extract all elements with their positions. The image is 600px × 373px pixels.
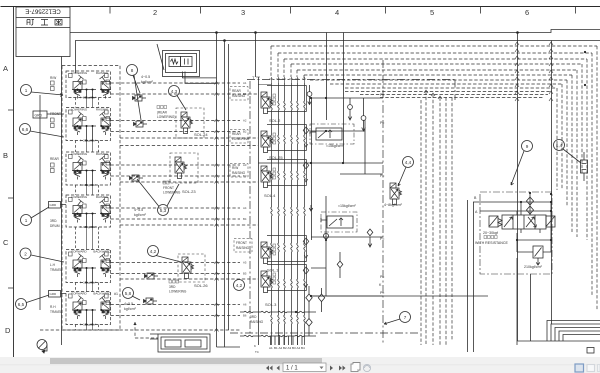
svg-text:8: 8 xyxy=(131,68,134,73)
svg-text:FORWARD: FORWARD xyxy=(71,250,87,254)
svg-text:1: 1 xyxy=(25,88,28,93)
svg-text:kgf/cm²: kgf/cm² xyxy=(124,307,137,311)
svg-text:RAISING: RAISING xyxy=(232,171,246,175)
svg-text:A2: A2 xyxy=(243,119,247,123)
svg-text:R/W: R/W xyxy=(50,76,56,80)
svg-text:P≈: P≈ xyxy=(380,93,384,97)
svg-text:SOL.2: SOL.2 xyxy=(269,118,281,123)
svg-text:BACKWARD: BACKWARD xyxy=(93,292,111,296)
svg-text:20~30kgf: 20~30kgf xyxy=(483,231,498,235)
svg-text:4~8kgf/cm²: 4~8kgf/cm² xyxy=(384,203,403,207)
svg-text:RAISING: RAISING xyxy=(250,320,264,324)
svg-text:BACKWARD: BACKWARD xyxy=(93,250,111,254)
svg-text:4: 4 xyxy=(335,8,339,17)
svg-text:K: K xyxy=(379,283,382,287)
svg-text:RAISING: RAISING xyxy=(96,195,109,199)
svg-text:SOL.25: SOL.25 xyxy=(269,155,283,160)
svg-text:LOWERING: LOWERING xyxy=(71,152,88,156)
svg-text:R/W: R/W xyxy=(232,166,238,170)
svg-text:REAR: REAR xyxy=(232,89,242,93)
svg-text:4,3: 4,3 xyxy=(171,89,178,94)
svg-text:TRAVEL: TRAVEL xyxy=(50,310,62,314)
svg-text:kgf/cm²: kgf/cm² xyxy=(141,80,154,84)
svg-text:LOWERING: LOWERING xyxy=(169,290,187,294)
svg-text:6: 6 xyxy=(525,8,529,17)
svg-text:GRD: GRD xyxy=(50,292,58,296)
svg-text:C: C xyxy=(3,238,9,247)
svg-text:4~25kgf/cm²: 4~25kgf/cm² xyxy=(80,95,97,99)
svg-text:B2: B2 xyxy=(283,346,287,350)
svg-text:5: 5 xyxy=(430,8,434,17)
svg-text:CE122567-E: CE122567-E xyxy=(25,7,60,14)
svg-text:kgf/cm²: kgf/cm² xyxy=(134,213,147,217)
svg-text:A1: A1 xyxy=(269,346,273,350)
svg-text:#1: #1 xyxy=(114,292,118,296)
svg-text:A2: A2 xyxy=(279,346,283,350)
svg-text:4~25kgf/cm²: 4~25kgf/cm² xyxy=(80,138,97,142)
svg-text:4~5.5: 4~5.5 xyxy=(124,302,133,306)
svg-text:A4: A4 xyxy=(297,346,301,350)
svg-text:A6: A6 xyxy=(243,303,247,307)
svg-text:4~15kgf/cm²: 4~15kgf/cm² xyxy=(80,322,97,326)
svg-text:B3: B3 xyxy=(292,346,296,350)
svg-text:3RD: 3RD xyxy=(250,315,257,319)
svg-text:LOWERING: LOWERING xyxy=(163,191,181,195)
svg-text:R.H: R.H xyxy=(50,305,56,309)
svg-text:RAISING: RAISING xyxy=(96,71,109,75)
svg-text:GRD: GRD xyxy=(35,114,43,118)
svg-text:9: 9 xyxy=(526,144,529,149)
svg-text:2: 2 xyxy=(153,8,157,17)
svg-text:B: B xyxy=(474,196,477,200)
svg-text:4~15kgf/cm²: 4~15kgf/cm² xyxy=(80,225,97,229)
svg-text:LOWERING: LOWERING xyxy=(71,195,88,199)
svg-text:4,2: 4,2 xyxy=(236,283,243,288)
svg-text:FRONT: FRONT xyxy=(236,241,247,245)
svg-text:B6: B6 xyxy=(243,314,247,318)
svg-text:B4: B4 xyxy=(243,217,247,221)
svg-text:LOWERING: LOWERING xyxy=(71,71,88,75)
svg-text:SOL.23: SOL.23 xyxy=(182,189,196,194)
svg-text:WITH RESISTANCE: WITH RESISTANCE xyxy=(475,241,508,245)
svg-text:B1: B1 xyxy=(274,346,278,350)
svg-text:4~5.5: 4~5.5 xyxy=(134,208,143,212)
svg-text:B2: B2 xyxy=(243,130,247,134)
svg-text:RAISING: RAISING xyxy=(236,246,250,250)
svg-text:4~15kgf/cm²: 4~15kgf/cm² xyxy=(80,280,97,284)
svg-text:A3: A3 xyxy=(288,346,292,350)
svg-text:LOWERING: LOWERING xyxy=(71,108,88,112)
svg-text:K: K xyxy=(254,344,256,348)
svg-text:GRD: GRD xyxy=(50,203,58,207)
svg-text:A: A xyxy=(3,64,8,73)
svg-text:P≈: P≈ xyxy=(380,291,384,295)
svg-text:SOL.24: SOL.24 xyxy=(194,132,208,137)
svg-text:3: 3 xyxy=(241,8,245,17)
svg-text:SOL.3: SOL.3 xyxy=(265,302,277,307)
svg-text:A5: A5 xyxy=(243,261,247,265)
svg-text:1 / 1: 1 / 1 xyxy=(286,366,298,372)
svg-text:A4: A4 xyxy=(243,206,247,210)
svg-text:DRUM: DRUM xyxy=(50,224,60,228)
svg-text:4~15kgf/cm²: 4~15kgf/cm² xyxy=(80,183,97,187)
svg-text:B: B xyxy=(3,151,8,160)
svg-text:B5: B5 xyxy=(243,272,247,276)
svg-text:D: D xyxy=(5,326,11,335)
svg-text:A: A xyxy=(475,210,478,214)
svg-text:2: 2 xyxy=(24,252,27,257)
svg-text:5,8: 5,8 xyxy=(125,291,132,296)
svg-text:LOWERING): LOWERING) xyxy=(157,115,175,119)
svg-text:6,5: 6,5 xyxy=(18,302,25,307)
svg-text:L.H: L.H xyxy=(50,263,56,267)
svg-text:SOL.4: SOL.4 xyxy=(264,193,276,198)
svg-text:A1: A1 xyxy=(243,81,247,85)
svg-text:B4: B4 xyxy=(301,346,305,350)
svg-text:FRONT: FRONT xyxy=(163,186,174,190)
svg-text:3RD.: 3RD. xyxy=(50,219,57,223)
svg-text:TRAVEL: TRAVEL xyxy=(50,268,62,272)
svg-text:LOWERING: LOWERING xyxy=(232,137,250,141)
svg-text:RAISING: RAISING xyxy=(232,94,246,98)
svg-text:T4: T4 xyxy=(255,350,259,354)
svg-text:≈15kgf/cm²: ≈15kgf/cm² xyxy=(338,204,357,208)
svg-text:7: 7 xyxy=(404,315,407,320)
svg-text:≈15kgf/cm²: ≈15kgf/cm² xyxy=(326,144,345,148)
svg-text:P≈: P≈ xyxy=(380,275,384,279)
svg-text:3RD: 3RD xyxy=(169,285,176,289)
svg-text:P≈: P≈ xyxy=(380,174,384,178)
svg-text:SOL.1: SOL.1 xyxy=(267,268,279,273)
svg-text:REAR: REAR xyxy=(50,157,60,161)
svg-text:6,6: 6,6 xyxy=(22,127,29,132)
svg-text:210kgf/cm²: 210kgf/cm² xyxy=(524,265,543,269)
svg-text:REAR: REAR xyxy=(232,132,242,136)
svg-text:RAISING: RAISING xyxy=(96,152,109,156)
svg-text:4,4: 4,4 xyxy=(405,160,412,165)
svg-text:SOL.26: SOL.26 xyxy=(194,283,208,288)
svg-text:P≈: P≈ xyxy=(380,237,384,241)
svg-text:P≈: P≈ xyxy=(380,121,384,125)
svg-text:4,2: 4,2 xyxy=(150,249,157,254)
svg-text:RAISING: RAISING xyxy=(96,108,109,112)
svg-text:4~0.5: 4~0.5 xyxy=(141,75,150,79)
svg-text:(REAR: (REAR xyxy=(157,111,168,115)
svg-text:FORWARD: FORWARD xyxy=(71,292,87,296)
svg-text:5,3: 5,3 xyxy=(160,208,167,213)
svg-text:1: 1 xyxy=(25,218,28,223)
